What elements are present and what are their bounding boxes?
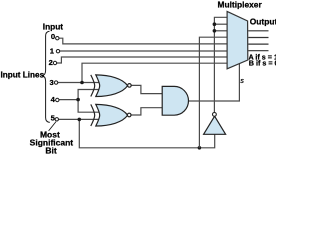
svg-text:Bit: Bit: [45, 146, 57, 156]
svg-text:0: 0: [51, 32, 55, 41]
input terminal 1: [56, 50, 59, 53]
junction node on input 5 wire: [78, 118, 82, 122]
wire input 2 to multiplexer input 7: [57, 57, 227, 63]
multiplexer output line 2: [248, 37, 268, 39]
AND gate G3: [162, 86, 188, 115]
svg-text:Multiplexer: Multiplexer: [218, 0, 263, 9]
svg-text:B if s = 0: B if s = 0: [249, 58, 276, 67]
junction node on inverter output at multiplexer input 3: [213, 29, 217, 33]
svg-text:3: 3: [49, 78, 53, 87]
wire inverter output to multiplexer input 1: [214, 17, 227, 112]
multiplexer output line 3: [248, 43, 268, 45]
wire XNOR gate G1 output to AND gate top input: [131, 85, 162, 93]
XNOR gate G1: [91, 75, 131, 97]
wire input 5 to XNOR gate G2 bottom input: [59, 118, 100, 120]
multiplexer output line 4: [248, 50, 268, 52]
wire input 0 to multiplexer input 5: [59, 38, 227, 44]
wire multiplexer input 2: [214, 23, 227, 25]
input terminal 2: [53, 61, 56, 64]
inverter G4 output bubble: [213, 113, 217, 117]
brace grouping input lines 0-5: [42, 31, 50, 122]
svg-text:s: s: [240, 78, 244, 85]
wire multiplexer input 3: [214, 30, 227, 32]
svg-text:Input Lines: Input Lines: [1, 71, 45, 80]
wire input 4: [59, 99, 78, 101]
input terminal 0: [56, 37, 59, 40]
svg-text:5: 5: [51, 114, 56, 123]
junction node on most-significant-bit net: [198, 146, 202, 150]
wire input 3 riser to multiplexer input 8: [82, 63, 227, 82]
wire most-significant-bit riser to multiplexer input 4: [199, 37, 227, 148]
inverter G4: [204, 116, 226, 134]
junction node on input 3 wire: [80, 81, 84, 85]
svg-text:Output: Output: [250, 17, 276, 27]
junction node on input 4 wire: [76, 98, 80, 102]
input terminal 4: [56, 98, 59, 101]
XNOR gate G2: [91, 104, 131, 126]
svg-text:4: 4: [51, 95, 56, 104]
input terminal 3: [54, 81, 57, 84]
svg-text:2: 2: [49, 58, 53, 67]
multiplexer output line 1: [248, 30, 268, 32]
wire input 3 to XNOR gate G1 top input: [58, 82, 100, 84]
multiplexer U1: [227, 11, 248, 68]
wire XNOR gate G2 output to AND gate bottom input: [131, 108, 162, 115]
select wire s from AND gate output to multiplexer select pin: [189, 64, 240, 101]
wire input 1 to multiplexer input 6: [60, 50, 227, 52]
svg-text:Input: Input: [43, 21, 64, 31]
wire input 5 riser down along most-significant-bit net to inverter input: [79, 119, 214, 147]
wire input 4 branch to XNOR gate G1 bottom input and XNOR gate G2 top input: [78, 90, 100, 113]
junction node on inverter output at multiplexer input 2: [213, 22, 217, 26]
input terminal 5: [55, 118, 58, 121]
svg-text:1: 1: [50, 47, 55, 56]
pointer from label Most Significant Bit to input 5: [49, 122, 56, 131]
